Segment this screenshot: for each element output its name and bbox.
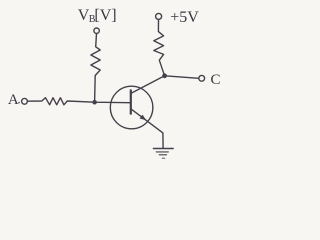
svg-text:A: A (8, 92, 19, 108)
svg-text:C: C (211, 72, 221, 88)
svg-text:[V]: [V] (94, 7, 116, 24)
svg-text:+5V: +5V (170, 9, 199, 26)
